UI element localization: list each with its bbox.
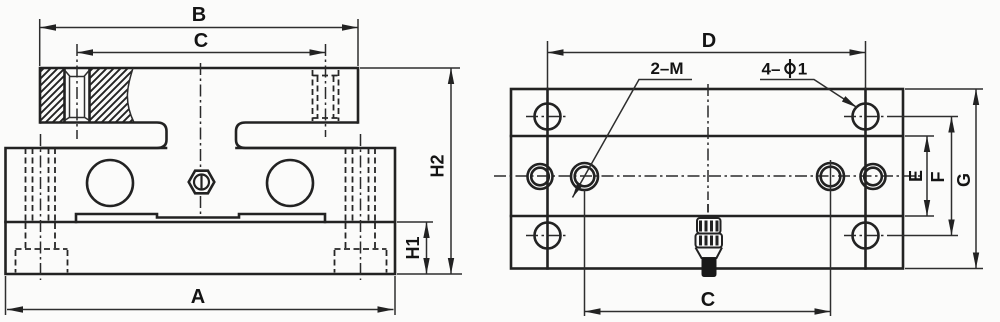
relieved bottom lip of beam <box>76 214 325 222</box>
corner bolt hole bottom-right <box>844 223 887 249</box>
top plate edge line lower <box>511 215 903 218</box>
hidden hole right chamfer lines <box>313 76 339 119</box>
label 4-phi1 with leader <box>760 59 857 108</box>
hidden mounting bolt hole right <box>346 148 376 248</box>
dimension A <box>6 276 396 315</box>
end hole right <box>861 164 886 189</box>
hidden threaded hole right outer <box>313 70 339 121</box>
svg-text:E: E <box>906 170 926 182</box>
dimension B <box>40 4 358 66</box>
plate edge vertical right <box>864 89 867 269</box>
dimension H2 <box>360 68 462 274</box>
hidden threaded hole right inner <box>318 76 334 118</box>
hidden counterbore right <box>335 249 387 273</box>
left gap capsule (slot between plate and body) <box>40 123 167 149</box>
right gap capsule <box>236 123 358 149</box>
dimension H1 <box>397 222 433 274</box>
plate edge vertical left <box>546 89 549 269</box>
cable gland body lower section <box>696 234 723 248</box>
cable (solid) <box>702 258 717 277</box>
hidden counterbore left <box>16 249 68 273</box>
base plate outline <box>511 89 903 269</box>
label 2-M with leader <box>573 59 693 198</box>
corner bolt hole top-left <box>526 104 569 130</box>
gland inner circle with bar <box>194 174 209 191</box>
dimension D <box>548 30 866 89</box>
hatch section right of hole with break curve <box>90 68 135 123</box>
bolt centerline left <box>40 134 42 280</box>
hatch section left of hole <box>40 68 65 123</box>
centerline left hole / C extension <box>76 44 78 139</box>
horizontal centerline <box>494 175 921 177</box>
bolt centerline right <box>360 134 362 280</box>
svg-text:H1: H1 <box>403 236 423 259</box>
svg-text:H2: H2 <box>428 154 448 177</box>
svg-text:D: D <box>702 30 716 52</box>
break curve <box>127 68 134 123</box>
dimension C right view <box>585 160 831 316</box>
svg-text:C: C <box>701 289 715 311</box>
svg-text:B: B <box>192 4 206 26</box>
threaded hole left inner bore <box>70 77 85 118</box>
cable gland taper <box>696 248 723 259</box>
flexure hole left <box>87 160 133 206</box>
svg-text:1: 1 <box>798 60 807 79</box>
body and base outline (top edge broken between gap slots) <box>6 148 396 274</box>
svg-text:C: C <box>194 30 208 52</box>
threaded hole 2-M left <box>571 163 598 190</box>
corner bolt hole top-right <box>844 104 887 130</box>
hidden mounting bolt hole left <box>26 148 56 248</box>
cable gland body upper section <box>697 218 721 234</box>
end hole left <box>528 164 553 189</box>
dimension C <box>77 30 326 53</box>
flexure hole right <box>267 160 313 206</box>
dimension E <box>905 136 934 216</box>
vertical centerline <box>707 84 709 213</box>
svg-text:4–: 4– <box>762 60 781 79</box>
svg-text:A: A <box>191 286 205 308</box>
threaded hole 2-M right <box>817 163 844 190</box>
centerline right hole / C extension <box>325 44 327 137</box>
top plate edge line upper <box>511 135 903 138</box>
dimension G <box>905 89 983 269</box>
svg-text:2–M: 2–M <box>650 59 683 78</box>
svg-text:G: G <box>954 173 974 187</box>
hex cable gland nut <box>189 171 215 194</box>
corner bolt hole bottom-left <box>526 223 569 249</box>
dimension F <box>887 117 958 236</box>
seam line between body and base plate <box>6 221 396 224</box>
vertical centerline of view <box>200 63 202 214</box>
threaded hole left chamfers <box>65 70 90 121</box>
threaded hole left outer walls <box>65 69 90 122</box>
top plate outline <box>40 68 358 123</box>
svg-text:F: F <box>928 172 948 183</box>
